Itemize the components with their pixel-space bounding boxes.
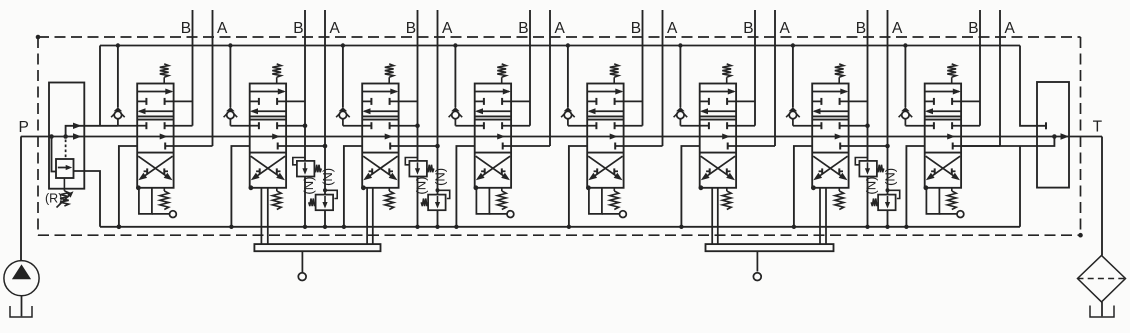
RB7 pilot line <box>855 158 867 165</box>
port relief valve RB3 (B side) <box>409 161 427 177</box>
V8 A-port row <box>953 143 1000 150</box>
wire: V6 drain to tank rail <box>679 146 700 229</box>
wire: T line to filter <box>1101 137 1103 256</box>
wire: V4 A work line <box>549 10 551 146</box>
V2 flow arrow right (position 1) <box>250 89 286 95</box>
wire: P inlet branch to relief valve <box>52 137 57 172</box>
port relief valve RB2 (B side) <box>297 161 315 177</box>
valve section V7 body <box>812 84 848 188</box>
wire: V5 A work line <box>662 10 664 146</box>
svg-text:(N): (N) <box>301 177 316 195</box>
V8 flow arrow left (position 1) <box>925 108 961 114</box>
V2 blocked ports row 1 <box>250 98 277 105</box>
wire: V4 B work line <box>529 10 531 126</box>
V2 flow arrow on P rail <box>272 134 280 140</box>
V1 return spring (bottom) <box>160 188 169 210</box>
wire: V2 feed gallery entry <box>230 125 249 127</box>
V5 float position crossed arrows <box>588 156 622 180</box>
V7 return spring (bottom) <box>835 188 844 210</box>
V5 pilot port (detent ball) <box>620 211 627 218</box>
svg-text:B: B <box>631 20 641 37</box>
node: V7 spool drain junction <box>811 185 816 190</box>
svg-text:B: B <box>181 20 191 37</box>
V4 position dividers <box>475 116 511 152</box>
node: V1 spool drain junction <box>136 185 141 190</box>
V2 pilot links to joystick bar <box>261 188 267 244</box>
wire: V6 A work line <box>774 10 776 146</box>
svg-text:A: A <box>217 20 228 37</box>
node: V4 spool drain junction <box>474 185 479 190</box>
joystick control bar 2 (sections 6-7) <box>706 244 834 280</box>
inlet section body <box>49 83 84 189</box>
wire: RA3 outlet to tank rail <box>435 210 439 229</box>
V8 pilot chamber loop <box>926 188 957 214</box>
wire: V1 A work line <box>212 10 214 146</box>
V4 blocked ports row 1 <box>475 98 502 105</box>
RA7 spring <box>871 199 878 207</box>
wire: V6 B work line <box>754 10 756 126</box>
node: V3 spool drain junction <box>361 185 366 190</box>
node: V2 spool drain junction <box>249 185 254 190</box>
RB2 spring <box>314 165 321 173</box>
V6 return spring (bottom) <box>722 188 731 210</box>
wire: V8 drain to tank rail <box>904 146 925 229</box>
wire: V3 B-port link <box>390 100 418 102</box>
V3 A-port row <box>390 143 437 150</box>
wire: V7 feed gallery entry <box>793 125 812 127</box>
V2 A-port row <box>278 143 325 150</box>
RB3 pilot line <box>405 158 417 165</box>
V1 feed gallery ports row <box>137 122 192 129</box>
V1 flow arrow right (position 1) <box>137 89 173 95</box>
valve section V8 body <box>925 84 961 188</box>
wire: V3 B work line <box>415 10 420 161</box>
wire: tank return rail <box>100 226 1020 228</box>
svg-text:(N): (N) <box>414 177 429 195</box>
RB7 spring <box>877 165 884 173</box>
check valve CV4 <box>449 43 463 125</box>
V3 feed gallery ports row <box>362 122 417 129</box>
V8 pilot port (detent ball) <box>957 211 964 218</box>
wire: V8 B work line <box>979 10 981 126</box>
V8 spool spring (top) <box>947 64 956 84</box>
V6 A-port row <box>728 143 775 150</box>
RA2 pilot line <box>323 188 337 198</box>
V3 flow arrow right (position 1) <box>362 89 398 95</box>
V5 pilot chamber loop <box>589 188 620 214</box>
V5 feed gallery ports row <box>587 122 642 129</box>
check valve CV6 <box>674 43 688 125</box>
valve section V3 body <box>362 84 398 188</box>
relief valve (R) spring (adjustable) <box>57 178 74 208</box>
wire: V2 A work line <box>323 10 328 195</box>
V6 spool spring (top) <box>722 64 731 84</box>
svg-text:(R): (R) <box>45 192 62 206</box>
V1 spool spring (top) <box>160 64 169 84</box>
V7 blocked ports row 1 <box>812 98 839 105</box>
wire: V7 A work line <box>885 10 890 195</box>
svg-text:B: B <box>968 20 978 37</box>
V7 A-port row <box>840 143 887 150</box>
V3 pilot links to joystick bar <box>367 188 373 244</box>
V8 feed gallery ports row <box>925 122 980 129</box>
wire: inlet feed branch to parallel rail <box>63 123 118 139</box>
flow arrow on P rail at inlet <box>73 133 82 139</box>
V1 A-port row <box>165 143 212 150</box>
port relief valve RA3 (A side) <box>428 195 446 211</box>
V5 spool spring (top) <box>610 64 619 84</box>
V6 flow arrow on P rail <box>722 134 730 140</box>
V7 spool spring (top) <box>835 64 844 84</box>
V4 float position crossed arrows <box>476 156 510 180</box>
V1 flow arrow on P rail <box>160 134 168 140</box>
wire: V5 B-port link <box>615 100 643 102</box>
V7 flow arrow on P rail <box>835 134 843 140</box>
svg-text:(N): (N) <box>864 177 879 195</box>
svg-text:A: A <box>892 20 903 37</box>
check valve CV3 <box>336 43 350 125</box>
V2 return spring (bottom) <box>272 188 281 210</box>
V6 flow arrow left (position 1) <box>700 108 736 114</box>
return filter <box>1078 255 1126 302</box>
port relief valve RB7 (B side) <box>859 161 877 177</box>
svg-text:(N): (N) <box>433 168 448 186</box>
V5 flow arrow right (position 1) <box>587 89 623 95</box>
check valve CV1 <box>111 43 125 125</box>
wire: V1 feed gallery entry <box>118 125 137 127</box>
valve section V4 body <box>475 84 511 188</box>
relief valve (R) pilot line (dashed) <box>65 140 67 159</box>
wire: V5 drain to tank rail <box>567 146 588 229</box>
wire: V3 drain to tank rail <box>342 146 363 229</box>
svg-text:B: B <box>293 20 303 37</box>
wire: V6 B-port link <box>727 100 755 102</box>
V5 flow arrow on P rail <box>610 134 618 140</box>
wire: V3 A work line <box>435 10 440 195</box>
valve block enclosure (dashed boundary) <box>36 35 1083 238</box>
pump <box>4 137 39 296</box>
svg-text:P: P <box>19 119 29 136</box>
V3 flow arrow on P rail <box>385 134 393 140</box>
check valve CV7 <box>786 43 800 125</box>
port relief valve RA2 (A side) <box>316 195 334 211</box>
V2 feed gallery ports row <box>250 122 305 129</box>
V5 A-port row <box>615 143 662 150</box>
wire: V1 B-port link <box>165 100 193 102</box>
port relief valve RA7 (A side) <box>878 195 896 211</box>
V7 position dividers <box>812 116 848 152</box>
wire: RB2 outlet to tank rail <box>303 177 307 230</box>
wire: A-gallery return into outlet <box>961 134 1057 146</box>
V7 feed gallery ports row <box>812 122 867 129</box>
V8 blocked ports row 1 <box>925 98 952 105</box>
wire: HP carry-over line into outlet (blocked) <box>1020 46 1046 130</box>
V6 flow arrow right (position 1) <box>700 89 736 95</box>
wire: V2 drain to tank rail <box>229 146 250 229</box>
V4 feed gallery ports row <box>475 122 530 129</box>
V4 A-port row <box>503 143 550 150</box>
valve section V6 body <box>700 84 736 188</box>
V1 flow arrow left (position 1) <box>138 108 174 114</box>
wire: V8 feed gallery entry <box>905 125 924 127</box>
outlet section body <box>1037 82 1069 188</box>
RB2 pilot line <box>293 158 305 165</box>
wire: tank rail rising to outlet junction <box>1019 146 1021 227</box>
V1 pilot chamber loop <box>139 188 170 214</box>
wire: P pressure rail <box>21 136 1102 138</box>
V2 position dividers <box>250 116 286 152</box>
V3 float position crossed arrows <box>363 156 397 180</box>
svg-text:A: A <box>442 20 453 37</box>
wire: V5 feed gallery entry <box>568 125 587 127</box>
wire: V4 feed gallery entry <box>455 125 474 127</box>
node: V6 spool drain junction <box>699 185 704 190</box>
wire: upper parallel feed rail <box>100 46 1020 126</box>
V4 flow arrow on P rail <box>497 134 505 140</box>
svg-text:A: A <box>667 20 678 37</box>
wire: V4 drain to tank rail <box>454 146 475 229</box>
wire: V7 drain to tank rail <box>792 146 813 229</box>
V8 position dividers <box>925 116 961 152</box>
wire: V7 B work line <box>865 10 870 161</box>
V1 position dividers <box>137 116 173 152</box>
V6 blocked ports row 1 <box>700 98 727 105</box>
wire: RB3 outlet to tank rail <box>415 177 419 230</box>
wire: V1 B work line <box>192 10 194 126</box>
V4 flow arrow left (position 1) <box>475 108 511 114</box>
V2 float position crossed arrows <box>251 156 285 180</box>
V3 return spring (bottom) <box>385 188 394 210</box>
V5 blocked ports row 1 <box>587 98 614 105</box>
RA2 spring <box>309 199 316 207</box>
V6 feed gallery ports row <box>700 122 755 129</box>
V4 return spring (bottom) <box>497 188 506 210</box>
V3 blocked ports row 1 <box>362 98 389 105</box>
wire: V8 B-port link <box>952 100 980 102</box>
svg-text:A: A <box>555 20 566 37</box>
svg-text:B: B <box>406 20 416 37</box>
wire: RA7 outlet to tank rail <box>885 210 889 229</box>
wire: V6 feed gallery entry <box>680 125 699 127</box>
wire: RA2 outlet to tank rail <box>323 210 327 229</box>
V1 float position crossed arrows <box>138 156 172 180</box>
V2 flow arrow left (position 1) <box>250 108 286 114</box>
wire: V1 drain to tank rail <box>117 146 137 229</box>
joystick control bar 1 (sections 2-3) <box>254 244 380 280</box>
valve section V5 body <box>587 84 623 188</box>
valve section V1 body <box>137 84 173 188</box>
V5 position dividers <box>587 116 623 152</box>
check valve CV5 <box>561 43 575 125</box>
wire: relief valve outlet to tank rail <box>74 171 122 229</box>
V1 blocked ports row 1 <box>137 98 164 105</box>
V7 flow arrow right (position 1) <box>812 89 848 95</box>
wire: V2 B-port link <box>277 100 305 102</box>
svg-text:A: A <box>780 20 791 37</box>
V8 flow arrow on P rail <box>947 134 955 140</box>
wire: V5 B work line <box>642 10 644 126</box>
svg-text:B: B <box>743 20 753 37</box>
V4 pilot chamber loop <box>476 188 507 214</box>
wire: V2 B work line <box>303 10 308 161</box>
svg-text:A: A <box>1005 20 1016 37</box>
svg-text:B: B <box>856 20 866 37</box>
wire: V4 B-port link <box>502 100 530 102</box>
V3 flow arrow left (position 1) <box>363 108 399 114</box>
V4 pilot port (detent ball) <box>507 211 514 218</box>
V4 spool spring (top) <box>497 64 506 84</box>
RA3 spring <box>421 199 428 207</box>
flow arrow on T outlet line <box>1061 133 1070 139</box>
V8 float position crossed arrows <box>926 156 960 180</box>
tank symbol under filter <box>1090 302 1114 317</box>
wire: V7 B-port link <box>840 100 868 102</box>
node: V5 spool drain junction <box>586 185 591 190</box>
V3 spool spring (top) <box>385 64 394 84</box>
svg-text:(N): (N) <box>883 168 898 186</box>
RA7 pilot line <box>886 188 900 198</box>
V1 pilot port (detent ball) <box>170 211 177 218</box>
check valve CV8 <box>899 43 913 125</box>
svg-text:B: B <box>518 20 528 37</box>
V7 flow arrow left (position 1) <box>813 108 849 114</box>
V3 position dividers <box>362 116 398 152</box>
svg-text:A: A <box>330 20 341 37</box>
V7 pilot links to joystick bar <box>820 188 826 244</box>
V6 position dividers <box>700 116 736 152</box>
node: V8 spool drain junction <box>924 185 929 190</box>
V5 return spring (bottom) <box>610 188 619 210</box>
tank symbol under pump <box>10 296 32 317</box>
V2 spool spring (top) <box>272 64 281 84</box>
svg-text:T: T <box>1093 119 1103 136</box>
RA3 pilot line <box>436 188 450 198</box>
relief valve (R) body <box>56 159 74 178</box>
svg-text:(N): (N) <box>320 168 335 186</box>
wire: RB7 outlet to tank rail <box>865 177 869 230</box>
V6 pilot links to joystick bar <box>712 188 718 244</box>
V7 float position crossed arrows <box>813 156 847 180</box>
wire: V3 feed gallery entry <box>343 125 362 127</box>
RB3 spring <box>427 165 434 173</box>
V6 float position crossed arrows <box>701 156 735 180</box>
check valve CV2 <box>224 43 238 125</box>
V8 return spring (bottom) <box>947 188 956 210</box>
valve section V2 body <box>250 84 286 188</box>
V5 flow arrow left (position 1) <box>588 108 624 114</box>
V8 flow arrow right (position 1) <box>925 89 961 95</box>
wire: V8 A work line <box>999 10 1001 146</box>
V4 flow arrow right (position 1) <box>475 89 511 95</box>
